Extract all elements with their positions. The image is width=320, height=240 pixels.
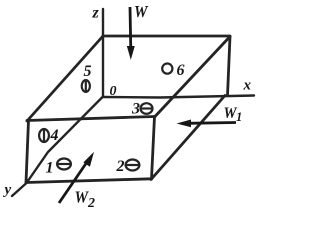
svg-text:2: 2 [116, 158, 125, 175]
svg-text:4: 4 [50, 127, 59, 144]
svg-text:1: 1 [46, 160, 54, 177]
svg-text:6: 6 [177, 62, 185, 79]
svg-text:3: 3 [131, 101, 140, 118]
svg-text:5: 5 [84, 63, 92, 80]
svg-text:2: 2 [87, 196, 95, 211]
svg-text:z: z [92, 5, 100, 22]
svg-text:1: 1 [236, 110, 242, 124]
svg-text:W: W [134, 2, 149, 21]
svg-text:x: x [243, 78, 252, 94]
svg-text:y: y [3, 182, 12, 198]
svg-text:0: 0 [110, 84, 117, 99]
